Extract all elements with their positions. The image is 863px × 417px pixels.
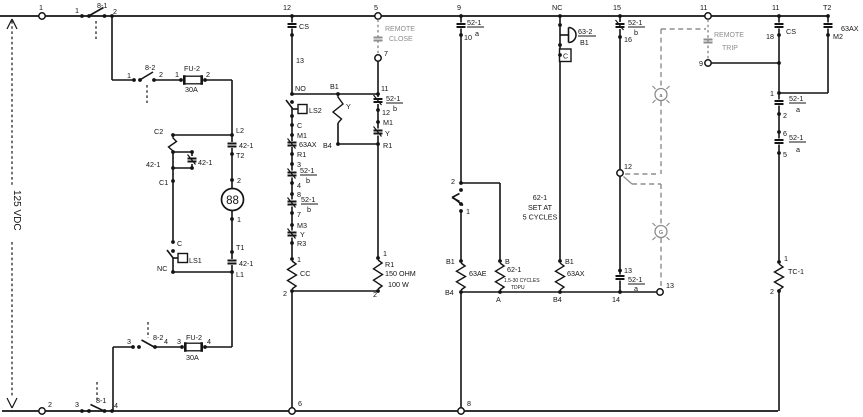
contact Y b: [288, 225, 306, 243]
svg-text:CC: CC: [300, 269, 310, 278]
node 2 (TC-1 bottom): [770, 287, 781, 296]
node NO: [290, 84, 306, 96]
wire node NO to node 11: [292, 93, 378, 95]
svg-text:C1: C1: [159, 178, 168, 187]
wire NC to L1: [173, 271, 232, 273]
svg-text:a: a: [634, 284, 638, 293]
svg-text:52-1: 52-1: [628, 18, 642, 27]
mech linkage of switch 8-1 top (dashed): [95, 21, 97, 39]
wire 7 to M3: [291, 213, 293, 225]
contact CS (trip): [775, 16, 797, 36]
node C: [290, 121, 302, 130]
terminal node 7: [375, 49, 388, 61]
node B1 (Y branch): [330, 82, 340, 96]
contact 52-1 a (timer column): [457, 16, 485, 38]
wire NC down: [559, 16, 561, 49]
timer contact 62-1 (arrow TDPU): [452, 188, 463, 206]
svg-text:13: 13: [624, 266, 632, 275]
wire M2 down and left to node 1: [827, 35, 829, 93]
node M1 (close column): [376, 118, 393, 127]
switch 8-1 (knife switch, top bus, pins 1-2): [75, 1, 117, 18]
svg-text:63AX: 63AX: [841, 24, 859, 33]
wire 12 down to 13: [619, 176, 621, 269]
svg-text:12: 12: [382, 108, 390, 117]
svg-text:4: 4: [114, 401, 118, 410]
svg-text:18: 18: [766, 32, 774, 41]
node 12 dot (close column): [376, 108, 390, 117]
svg-text:52-1: 52-1: [789, 133, 803, 142]
svg-text:42-1: 42-1: [239, 259, 253, 268]
svg-text:LS2: LS2: [309, 106, 322, 115]
wire TC-1 down to bottom bus: [778, 291, 780, 411]
wire CC column down to bottom bus: [291, 291, 293, 408]
svg-text:1: 1: [297, 255, 301, 264]
svg-text:C: C: [563, 54, 568, 61]
terminal node 8 (bottom bus): [458, 399, 471, 414]
wire LS2 to C: [291, 116, 293, 125]
wire bottom negative bus: [2, 410, 778, 412]
node 14: [612, 290, 622, 304]
svg-text:NC: NC: [552, 3, 562, 12]
node 8: [290, 190, 301, 199]
fuse FU-2 30A (bottom): [177, 333, 211, 362]
svg-text:M2: M2: [833, 32, 843, 41]
terminal node 1 (top bus): [39, 3, 45, 19]
node L2: [230, 126, 244, 137]
svg-text:Y: Y: [346, 102, 351, 111]
svg-text:LS1: LS1: [189, 256, 202, 265]
svg-text:52-1: 52-1: [789, 94, 803, 103]
wire 2 to 6: [778, 114, 780, 132]
node 12 (top bus): [283, 3, 294, 18]
svg-text:4: 4: [207, 337, 211, 346]
svg-text:11: 11: [381, 84, 388, 93]
node L1: [230, 270, 244, 279]
wire 10 down to node 2: [460, 35, 462, 183]
svg-text:4: 4: [297, 181, 301, 190]
label REMOTE TRIP: [714, 32, 744, 52]
svg-text:Y: Y: [385, 129, 390, 138]
wire R3 to 1: [291, 243, 293, 259]
svg-text:B4: B4: [323, 141, 332, 150]
wire 1 down to B1: [460, 211, 462, 261]
resistor R1 150 OHM 100 W: [374, 260, 416, 289]
svg-text:B1: B1: [330, 82, 339, 91]
svg-text:1: 1: [784, 254, 788, 263]
svg-text:FU-2: FU-2: [186, 333, 202, 342]
svg-text:3: 3: [177, 337, 181, 346]
node M3: [290, 221, 307, 230]
wire trip-coil bus (B4 to terminal 13): [461, 291, 660, 293]
node B (62-1): [498, 257, 510, 266]
dashed gray wire (remote trip tap to lamp R): [661, 29, 706, 88]
node 1 (CC top): [290, 255, 301, 264]
wire 62-1 branch riser: [499, 183, 501, 261]
motor 88 (spring charge motor): [222, 189, 244, 211]
svg-text:A: A: [496, 295, 501, 304]
wire C to M1: [291, 125, 293, 135]
svg-text:1: 1: [383, 249, 387, 258]
node A (62-1): [496, 290, 502, 304]
node 3: [290, 160, 301, 169]
svg-text:52-1: 52-1: [300, 166, 314, 175]
svg-text:42-1: 42-1: [146, 160, 160, 169]
terminal node 6 (bottom bus): [289, 399, 302, 414]
svg-text:R3: R3: [297, 239, 306, 248]
svg-text:12: 12: [624, 162, 632, 171]
switch 8-2 (knife switch, pins 3-4, bottom): [113, 333, 168, 349]
svg-text:10: 10: [464, 33, 472, 42]
terminal node 9: [699, 59, 711, 68]
svg-text:30A: 30A: [185, 85, 198, 94]
dashed gray wire (terminal 12 to lamp G): [624, 177, 662, 226]
remote close link (dashed gray): [377, 20, 379, 55]
wire top positive bus: [0, 15, 828, 17]
wire B4 down to bottom bus: [460, 292, 462, 408]
svg-text:M1: M1: [297, 131, 307, 140]
contact 52-1 b (lower): [288, 194, 319, 214]
svg-text:2: 2: [770, 287, 774, 296]
svg-text:b: b: [634, 28, 638, 37]
node 7: [290, 210, 301, 219]
wire R1 bottom to CC bottom: [292, 290, 378, 292]
contact remote trip (gray): [704, 40, 713, 43]
lamp R (gray, future): [653, 86, 670, 103]
svg-text:R1: R1: [297, 150, 306, 159]
svg-text:T2: T2: [823, 3, 831, 12]
node M2: [826, 32, 843, 41]
node B1 (63AE): [446, 257, 463, 266]
svg-text:b: b: [307, 205, 311, 214]
svg-text:9: 9: [457, 3, 461, 12]
svg-text:52-1: 52-1: [386, 94, 400, 103]
wire 42-1 parallel branch bottom: [171, 166, 194, 170]
node 1 (trip column): [770, 89, 781, 98]
resistor Y (anti-pump): [333, 94, 351, 144]
svg-text:REMOTE: REMOTE: [385, 26, 415, 33]
terminal node 5 (top bus): [374, 3, 381, 19]
svg-text:1: 1: [466, 207, 470, 216]
svg-text:150 OHM: 150 OHM: [385, 269, 416, 278]
mech linkage of switch 8-2 top (dashed): [146, 85, 148, 103]
coil C (box): [558, 49, 571, 62]
wire 5 down to TC-1: [778, 153, 780, 262]
svg-text:NO: NO: [295, 84, 306, 93]
label REMOTE CLOSE: [385, 26, 415, 43]
node (63-2 bottom): [558, 43, 562, 47]
svg-text:3: 3: [127, 337, 131, 346]
svg-text:L2: L2: [236, 126, 244, 135]
wire bottom-left riser: [112, 347, 114, 411]
coil TC-1 (trip coil): [775, 264, 804, 290]
svg-text:7: 7: [384, 49, 388, 58]
svg-text:T2: T2: [236, 151, 244, 160]
fuse FU-2 30A (top): [175, 64, 210, 94]
svg-text:2: 2: [283, 289, 287, 298]
svg-text:52-1: 52-1: [467, 18, 481, 27]
node 2 (CC bottom junction): [283, 289, 294, 298]
node T2 (top bus end): [823, 3, 831, 18]
svg-text:125 VDC: 125 VDC: [11, 190, 22, 231]
svg-text:8: 8: [467, 399, 471, 408]
node R1: [290, 150, 306, 159]
svg-text:3: 3: [75, 400, 79, 409]
svg-text:FU-2: FU-2: [184, 64, 200, 73]
wire 16 down to terminal 12: [619, 37, 621, 170]
svg-text:TDPU: TDPU: [511, 285, 525, 291]
svg-text:R1: R1: [383, 141, 392, 150]
wire R1 down to resistor R1: [377, 144, 379, 258]
node 1 (motor terminal): [230, 211, 241, 253]
node C2: [154, 127, 175, 137]
svg-text:2: 2: [113, 7, 117, 16]
node 1 (R1 top): [376, 249, 387, 260]
svg-text:11: 11: [700, 3, 707, 12]
svg-text:63AX: 63AX: [299, 140, 317, 149]
svg-text:1: 1: [127, 71, 131, 80]
node 6 (trip): [777, 129, 787, 138]
svg-text:SET AT: SET AT: [528, 203, 553, 212]
contact 52-1 a (x=620): [616, 271, 646, 294]
contact 52-1 b (x=620): [616, 16, 646, 37]
svg-text:b: b: [393, 104, 397, 113]
svg-text:1: 1: [175, 70, 179, 79]
svg-text:T1: T1: [236, 243, 244, 252]
wire branch to C1: [172, 152, 174, 181]
coil 62-1 timer: [496, 263, 541, 291]
node R3: [290, 239, 306, 248]
svg-text:C: C: [297, 121, 302, 130]
node 2 (trip): [777, 111, 787, 120]
wire 13 (CS to NO): [292, 35, 304, 94]
svg-text:15: 15: [613, 3, 621, 12]
svg-text:B4: B4: [553, 295, 562, 304]
svg-text:30A: 30A: [186, 353, 199, 362]
svg-text:M3: M3: [297, 221, 307, 230]
node NC (LS1): [157, 264, 175, 274]
svg-text:TRIP: TRIP: [722, 45, 738, 52]
wire 8-2 to fuse FU-2: [154, 79, 181, 81]
coil 63AX: [556, 263, 585, 290]
svg-text:2: 2: [237, 176, 241, 185]
svg-text:TC-1: TC-1: [788, 267, 804, 276]
svg-text:5: 5: [374, 3, 378, 12]
svg-text:1: 1: [770, 89, 774, 98]
node 15 (top bus): [613, 3, 622, 18]
node B4 (63AX): [553, 290, 562, 304]
svg-text:5: 5: [783, 150, 787, 159]
cutoff switch 42-1 (zigzag element below C2): [146, 135, 177, 169]
wire 42-1 parallel branch top: [173, 150, 194, 154]
wire 18 down to node 1: [777, 35, 781, 93]
node NC (top bus): [552, 3, 562, 18]
wire node C2 to node L2: [173, 134, 232, 136]
wire T2 to motor 88: [231, 154, 233, 189]
node 13 dot: [618, 266, 632, 275]
contact 52-1 a (trip lower): [775, 132, 807, 154]
svg-text:62-1: 62-1: [507, 265, 521, 274]
node (63-2 top): [558, 23, 562, 27]
coil CC (closing coil): [288, 261, 311, 289]
svg-text:2: 2: [48, 400, 52, 409]
svg-text:L1: L1: [236, 270, 244, 279]
node 5 (trip): [777, 150, 787, 159]
svg-text:G: G: [659, 230, 663, 236]
svg-text:a: a: [660, 93, 663, 99]
node 9 (top bus): [457, 3, 463, 18]
svg-text:CS: CS: [786, 27, 796, 36]
svg-text:CS: CS: [299, 22, 309, 31]
net 125 VDC supply dimension line (dashed with arrowheads): [7, 19, 17, 408]
contact 63AX a (T2 column): [824, 16, 859, 35]
svg-text:62-1: 62-1: [533, 193, 547, 202]
svg-text:2: 2: [451, 177, 455, 186]
svg-text:a: a: [796, 145, 800, 154]
contact 42-1 a (below L2): [228, 135, 254, 154]
contact 42-1 b (parallel bypass): [188, 152, 213, 168]
node C1: [159, 178, 175, 187]
svg-text:12: 12: [283, 3, 291, 12]
remote trip link (dashed gray): [707, 20, 709, 60]
svg-text:a: a: [796, 105, 800, 114]
svg-text:52-1: 52-1: [301, 195, 315, 204]
svg-text:B4: B4: [445, 288, 454, 297]
switch 8-1 (knife switch, bottom bus, pins 3-4): [75, 396, 118, 413]
svg-text:a: a: [475, 29, 479, 38]
svg-text:8-2: 8-2: [153, 333, 163, 342]
svg-text:8-2: 8-2: [145, 63, 155, 72]
svg-text:1: 1: [237, 215, 241, 224]
svg-text:R1: R1: [385, 260, 394, 269]
svg-text:16: 16: [624, 35, 632, 44]
lamp G (gray, future): [653, 223, 670, 240]
pressure switch 63-2 B1: [560, 27, 596, 47]
wire C box down to B1: [559, 62, 561, 262]
svg-text:1: 1: [39, 3, 43, 12]
contact CS (close control switch): [288, 16, 310, 35]
svg-text:42-1: 42-1: [239, 141, 253, 150]
svg-text:B1: B1: [565, 257, 574, 266]
note 62-1 SET AT 5 CYCLES: [523, 193, 558, 222]
node 10: [459, 33, 472, 42]
node R1 (close column): [376, 141, 392, 150]
contact 52-1 b (close column): [374, 94, 404, 113]
svg-text:88: 88: [226, 195, 239, 207]
wire B4 to R1 node: [338, 143, 378, 145]
node 2 (motor terminal): [230, 176, 241, 185]
node B4 (63AE): [445, 288, 463, 297]
wire node 2 to 62-1 branch: [461, 182, 500, 184]
svg-text:6: 6: [783, 129, 787, 138]
svg-text:7: 7: [297, 210, 301, 219]
wire L1 down to bottom fuse row: [231, 272, 233, 347]
mech linkage of switch 8-1 bottom (dashed): [96, 382, 98, 400]
node 18: [766, 32, 781, 41]
svg-text:M1: M1: [383, 118, 393, 127]
svg-text:b: b: [306, 176, 310, 185]
svg-text:B1: B1: [446, 257, 455, 266]
mech linkage of switch 8-2 bottom (dashed): [147, 322, 149, 338]
svg-text:14: 14: [612, 295, 620, 304]
wire 9 to CS column: [711, 62, 779, 64]
node 13 dot: [290, 33, 294, 37]
terminal node 2 (bottom bus): [39, 400, 52, 414]
limit switch LS1: [167, 249, 202, 272]
contact 52-1 a (trip upper): [775, 93, 807, 114]
wire fuse FU-2 to L2 column: [205, 80, 232, 135]
wire 7 to 11: [377, 62, 379, 95]
svg-text:9: 9: [699, 59, 703, 68]
terminal node 11 (top bus): [700, 3, 711, 19]
svg-text:2: 2: [783, 111, 787, 120]
svg-text:8-1: 8-1: [96, 396, 106, 405]
svg-text:REMOTE: REMOTE: [714, 32, 744, 39]
node 2 (timer pickup): [451, 177, 463, 186]
svg-text:6: 6: [298, 399, 302, 408]
dashed gray wire (lamp G to terminal 13): [660, 238, 662, 289]
contact remote close (gray): [374, 38, 383, 41]
wire R1 to 3: [291, 154, 293, 164]
svg-text:2: 2: [159, 70, 163, 79]
node C (LS1): [171, 239, 182, 248]
node 1 (timer contact bottom): [459, 207, 470, 216]
contact 42-1 a (below T1): [228, 252, 254, 272]
svg-text:Y: Y: [300, 230, 305, 239]
terminal node 12: [617, 162, 632, 176]
svg-text:63AE: 63AE: [469, 269, 487, 278]
node T2 (motor): [230, 151, 244, 160]
svg-text:4: 4: [164, 337, 168, 346]
contact Y b (close column): [374, 122, 391, 144]
svg-text:2: 2: [206, 70, 210, 79]
node T1 (motor): [230, 243, 244, 254]
wire 12 to M1: [377, 110, 379, 122]
svg-text:NC: NC: [157, 264, 167, 273]
wire 8-2 to fuse FU-2 bottom: [155, 346, 182, 348]
dashed gray wire (lamp R to terminal 12): [625, 101, 661, 174]
svg-text:42-1: 42-1: [198, 158, 212, 167]
svg-text:13: 13: [666, 281, 674, 290]
wire from 8-1 pin2 down to 8-2 row: [111, 16, 113, 80]
svg-text:52-1: 52-1: [628, 275, 642, 284]
svg-text:1.5-30 CYCLES: 1.5-30 CYCLES: [504, 278, 540, 284]
limit switch LS2: [286, 100, 322, 118]
svg-text:C: C: [177, 239, 182, 248]
node B4 (Y branch): [323, 141, 340, 150]
node B1 (63AX): [558, 257, 574, 266]
junction node (42-1 branch top): [171, 150, 175, 154]
node 1 (TC-1 top): [777, 254, 788, 264]
svg-text:C2: C2: [154, 127, 163, 136]
node 4: [290, 181, 301, 190]
contact 63AX b: [288, 135, 317, 154]
svg-text:B1: B1: [580, 38, 589, 47]
wire node 1 to M2 column: [779, 92, 828, 94]
svg-text:11: 11: [772, 3, 779, 12]
node M1: [290, 131, 307, 140]
wire 4 to 8: [291, 183, 293, 194]
svg-text:63AX: 63AX: [567, 269, 585, 278]
svg-text:63-2: 63-2: [578, 27, 592, 36]
terminal node 13: [657, 281, 674, 295]
svg-text:8-1: 8-1: [97, 1, 107, 10]
node 16: [618, 35, 632, 44]
contact 52-1 b (upper): [288, 164, 318, 185]
svg-text:100 W: 100 W: [388, 280, 409, 289]
wire fuse bottom to L1 riser: [205, 346, 232, 348]
svg-text:1: 1: [75, 6, 79, 15]
coil 63AE: [457, 263, 487, 290]
